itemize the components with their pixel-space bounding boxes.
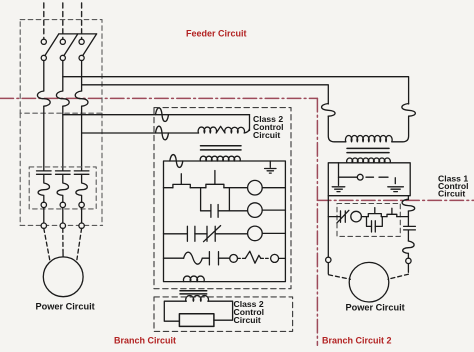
wire control tap 1	[63, 114, 250, 116]
wire bonding jumper	[339, 176, 358, 178]
demarcation line class 1 (red dash-dot horizontal)	[317, 199, 474, 201]
starter terminal A	[41, 202, 46, 207]
branch circuit 1 enclosure (dashed box)	[154, 108, 291, 289]
disconnect switch SW1 pole 2 blade	[64, 34, 78, 56]
fuse F5 (control tap 2)	[156, 126, 169, 140]
overload heater OL-B	[57, 175, 68, 203]
transformer T3 primary winding	[345, 135, 392, 141]
contact (pressure switch)	[368, 208, 381, 217]
disconnect switch SW1 pole 2 terminals	[60, 39, 65, 44]
wire rung 3 left	[164, 233, 188, 235]
power panel enclosure right edge (dashed)	[101, 113, 103, 225]
fuse F3	[75, 91, 88, 106]
wire feeder run 1 (to branch circuit 2)	[63, 77, 409, 104]
svg-text:Power Circuit: Power Circuit	[36, 302, 95, 312]
wire rung 1 right	[224, 187, 248, 189]
motor terminal T2 (branch 2 right)	[406, 258, 411, 263]
wire seal-in branch riser	[228, 188, 230, 211]
wire rung 3 to right rail	[262, 232, 285, 234]
wire rung 1 middle	[190, 187, 206, 189]
fuse F1	[37, 91, 50, 106]
coil M2	[351, 211, 362, 222]
wire parallel branch riser	[375, 217, 382, 227]
wire control rung (branch 2)	[328, 216, 340, 218]
fuse F7 (branch circuit 2, left leg)	[322, 104, 336, 117]
overload heater OL-A	[38, 175, 49, 203]
contactor contact M1-C	[74, 171, 89, 174]
wire rung to right rail	[397, 216, 409, 218]
supply line L2 (dashed incoming)	[62, 3, 64, 39]
power panel enclosure left edge (dashed)	[19, 113, 21, 225]
service disconnect enclosure (dashed box)	[20, 20, 102, 114]
supply line L1 (dashed incoming)	[43, 3, 45, 39]
wire parallel branch drop	[367, 217, 372, 227]
ground (equipment ground)	[388, 187, 404, 192]
wire phase A drop	[43, 61, 45, 92]
starter terminal C	[79, 202, 84, 207]
load resistor (bell / low voltage load)	[179, 314, 214, 327]
wire control tap 2	[82, 132, 199, 134]
wire rung 2 right	[229, 210, 247, 212]
wire phase B drop	[62, 61, 64, 92]
motor terminal C	[79, 223, 84, 228]
demarcation line branch 2 (red dash-dot vertical)	[316, 98, 318, 345]
motor M1	[43, 257, 83, 297]
contact NC (rung 3)	[204, 226, 221, 242]
supply line L3 (dashed incoming)	[81, 3, 83, 39]
transformer T1 secondary winding	[200, 156, 240, 161]
transformer T1 core	[201, 145, 242, 147]
contact aux (parallel)	[372, 221, 376, 232]
wire control tap 1 drop to transformer	[249, 115, 251, 131]
motor lead B (dashed)	[62, 228, 64, 250]
starter terminal B	[60, 202, 65, 207]
contact M aux (seal-in)	[211, 205, 218, 218]
wire right rail	[407, 230, 409, 241]
motor terminal A	[41, 223, 46, 228]
cord (dashed)	[238, 257, 246, 259]
fuse F8 (branch circuit 2, right leg)	[402, 104, 416, 117]
svg-text:Circuit: Circuit	[234, 315, 261, 325]
wire below terminal	[407, 264, 409, 273]
branch circuit 1 class-2 enclosure (dashed box)	[154, 297, 293, 332]
wire rung 3 right	[215, 233, 247, 235]
wire seal-in branch drop	[200, 188, 202, 211]
svg-text:Branch Circuit 2: Branch Circuit 2	[322, 336, 392, 346]
fuse F4 (control tap 1)	[156, 108, 169, 122]
fuse F9	[402, 199, 415, 211]
wire rung 4 left	[164, 257, 184, 259]
grounding conductor (dashed)	[366, 176, 388, 178]
wire rung 1 to right rail	[262, 187, 285, 189]
control cabinet box (class 1)	[328, 163, 410, 196]
wire right rail	[407, 253, 409, 258]
svg-text:Feeder Circuit: Feeder Circuit	[186, 29, 247, 39]
control panel box	[164, 161, 286, 282]
wire T2 secondary right	[208, 301, 233, 320]
wire below terminal	[327, 263, 329, 274]
portable resistance load	[245, 251, 260, 263]
wire right leg to T3	[392, 116, 409, 142]
wire to motor terminal B	[62, 208, 64, 223]
motor lead A (dashed)	[44, 228, 50, 259]
grounding electrode tick	[394, 178, 396, 184]
wire to motor terminal A	[43, 208, 45, 223]
wire left leg to T3	[328, 116, 346, 142]
motor lead C (dashed)	[77, 228, 82, 259]
bonding terminal	[357, 174, 363, 180]
disconnect switch SW1 pole 1 blade	[45, 34, 59, 56]
wire branch 2 right rail upper	[407, 196, 409, 200]
wire phase B below fuse	[62, 106, 64, 170]
transformer T1 primary winding	[198, 126, 249, 133]
disconnect switch SW1 tie bar	[59, 33, 97, 35]
svg-text:Circuit: Circuit	[438, 189, 465, 199]
pilot light PL1	[248, 180, 263, 195]
pushbutton PB1 (stop)	[173, 174, 190, 188]
receptacle outlet left	[230, 255, 238, 263]
wire to contacts	[361, 216, 368, 218]
transformer T2 secondary winding	[186, 296, 209, 302]
motor starter 1 enclosure (dashed box)	[29, 167, 96, 209]
wire T2 secondary left	[164, 301, 186, 321]
svg-text:Power Circuit: Power Circuit	[346, 303, 405, 313]
svg-text:Branch Circuit: Branch Circuit	[114, 336, 176, 346]
contactor contact M1-A	[37, 171, 52, 174]
cord (dashed)	[261, 257, 269, 259]
wire branch 2 left rail	[327, 196, 329, 258]
wire rung 2 middle	[218, 210, 229, 212]
wire to motor terminal C	[81, 208, 83, 223]
wire phase C below fuse	[81, 106, 83, 170]
motor M2	[349, 262, 389, 302]
wire phase A below fuse	[43, 106, 45, 170]
disconnect switch SW1 pole 1 terminals	[41, 39, 46, 44]
fuse F6 (control secondary)	[170, 155, 183, 168]
wire between contacts	[381, 216, 387, 218]
wire rung 2 to right rail	[262, 209, 285, 211]
motor starter 2 enclosure (dashed box)	[337, 204, 400, 237]
wire right rail	[407, 211, 409, 226]
overload heater OL2	[403, 241, 414, 253]
wire rung 3 middle	[195, 233, 207, 235]
thermal element (rung 4)	[184, 252, 203, 264]
contact NC (OL contact)	[337, 210, 349, 223]
contact NO (rung 4)	[209, 252, 218, 265]
wire rung 1 left	[164, 187, 173, 189]
pushbutton PB2 (start)	[206, 171, 224, 188]
motor lead (dashed)	[388, 274, 408, 279]
wire phase C drop	[81, 61, 83, 92]
wire rung 2 left	[201, 210, 211, 212]
wire grounded leg stub	[338, 163, 340, 186]
motor lead (dashed)	[329, 275, 351, 279]
motor terminal B	[60, 223, 65, 228]
wire rung 4	[202, 257, 209, 259]
transformer T3 core	[347, 147, 389, 149]
overload heater OL-C	[76, 175, 87, 203]
wire rung 4 to receptacle	[219, 257, 230, 259]
ground (system ground)	[332, 187, 345, 192]
power panel enclosure bottom edge (dashed)	[20, 224, 102, 226]
contactor contact M1-B	[56, 171, 71, 174]
disconnect switch SW1 pole 3 blade	[83, 34, 97, 56]
demarcation line power/control (red dash-dot horizontal)	[0, 97, 317, 99]
wire feeder run 2 (to branch circuit 2)	[82, 85, 329, 104]
motor terminal T1 (branch 2 left)	[326, 257, 331, 262]
pilot light PL2	[248, 203, 263, 218]
transformer T3 secondary winding	[347, 158, 391, 163]
transformer T2 primary winding (on bottom rail)	[183, 276, 204, 282]
contact NO (rung 3)	[187, 226, 195, 241]
contactor contact M2	[404, 226, 416, 230]
contact (float switch)	[387, 208, 397, 216]
fuse F2	[56, 91, 69, 106]
ground (control secondary)	[265, 161, 276, 173]
pilot light PL3	[248, 226, 263, 241]
transformer T2 core	[180, 290, 207, 292]
attachment plug	[271, 254, 279, 262]
svg-text:Circuit: Circuit	[253, 130, 280, 140]
wire rung 4 to right rail	[279, 257, 286, 259]
disconnect switch SW1 pole 3 terminals	[79, 39, 84, 44]
